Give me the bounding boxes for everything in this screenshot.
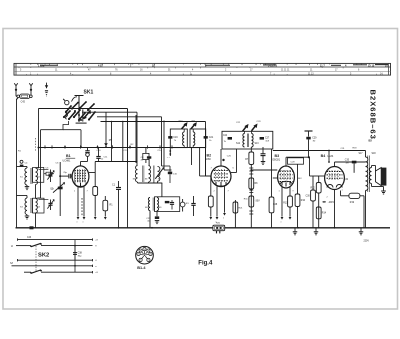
svg-text:SK2: SK2 xyxy=(38,252,49,258)
svg-text:11 7: 11 7 xyxy=(320,64,325,67)
svg-text:UCH81: UCH81 xyxy=(63,160,72,163)
svg-text:R13: R13 xyxy=(283,203,288,205)
svg-text:Fig.4: Fig.4 xyxy=(198,260,213,266)
svg-text:C29: C29 xyxy=(312,138,317,140)
svg-text:EF80: EF80 xyxy=(205,158,211,161)
svg-text:36V: 36V xyxy=(298,178,302,180)
svg-text:C28: C28 xyxy=(273,204,278,206)
svg-text:B1-4: B1-4 xyxy=(137,266,146,270)
svg-text:B3: B3 xyxy=(275,154,280,158)
svg-text:EBC81: EBC81 xyxy=(273,159,281,162)
svg-text:C27: C27 xyxy=(265,137,270,139)
svg-text:B1: B1 xyxy=(66,154,71,158)
svg-text:C24: C24 xyxy=(223,135,228,137)
svg-text:-30V: -30V xyxy=(328,200,334,204)
svg-text:C30: C30 xyxy=(306,196,311,198)
svg-text:*: * xyxy=(223,217,224,221)
svg-text:*: * xyxy=(281,221,282,225)
svg-text:11 13: 11 13 xyxy=(308,74,314,76)
svg-text:B4: B4 xyxy=(321,154,326,158)
svg-text:1 15a: 1 15a xyxy=(38,64,45,67)
svg-text:11 11 11: 11 11 11 xyxy=(281,70,290,72)
svg-text:S13: S13 xyxy=(255,143,260,145)
svg-text:B2: B2 xyxy=(207,153,212,157)
svg-text:5 11 5 3: 5 11 5 3 xyxy=(268,64,278,67)
svg-text:C21: C21 xyxy=(209,136,214,139)
svg-text:SK1: SK1 xyxy=(84,90,94,96)
svg-text:4 87: 4 87 xyxy=(98,64,103,67)
svg-text:15 15: 15 15 xyxy=(368,64,375,67)
svg-text:S17: S17 xyxy=(359,153,364,155)
svg-text:B5: B5 xyxy=(369,138,373,142)
svg-text:UL84: UL84 xyxy=(327,155,334,158)
svg-text:U: U xyxy=(11,244,13,248)
svg-text:*: * xyxy=(83,221,84,225)
svg-text:*: * xyxy=(77,221,78,225)
svg-text:S12: S12 xyxy=(236,143,241,145)
svg-text:B2X68B–63: B2X68B–63 xyxy=(369,90,378,140)
svg-text:C38: C38 xyxy=(78,253,83,255)
svg-text:C43: C43 xyxy=(27,237,32,239)
svg-text:R10: R10 xyxy=(301,200,306,202)
svg-text:R14: R14 xyxy=(322,213,327,215)
svg-text:C42: C42 xyxy=(21,101,26,104)
svg-text:-30V: -30V xyxy=(255,200,260,202)
svg-text:S18: S18 xyxy=(372,153,377,155)
svg-text:C35: C35 xyxy=(345,159,350,161)
svg-text:R19: R19 xyxy=(350,202,355,204)
svg-text:C19: C19 xyxy=(173,136,178,139)
svg-text:C34: C34 xyxy=(344,179,349,181)
svg-text:R12: R12 xyxy=(311,188,316,190)
svg-text:220V: 220V xyxy=(364,241,370,243)
